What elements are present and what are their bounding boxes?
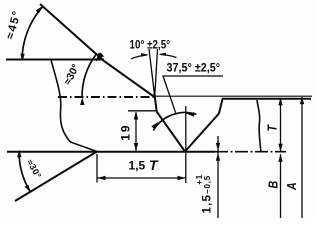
svg-text:A: A	[285, 182, 299, 191]
svg-text:1,5: 1,5	[202, 194, 214, 214]
svg-text:B: B	[267, 181, 281, 189]
svg-text:T: T	[266, 124, 280, 131]
svg-text:T: T	[149, 157, 159, 173]
svg-text:10° ±2,5°: 10° ±2,5°	[130, 39, 171, 52]
svg-text:37,5° ±2,5°: 37,5° ±2,5°	[167, 62, 221, 75]
svg-text:19: 19	[118, 123, 132, 140]
svg-text:−0,5: −0,5	[203, 175, 212, 194]
svg-text:1,5: 1,5	[129, 159, 146, 173]
